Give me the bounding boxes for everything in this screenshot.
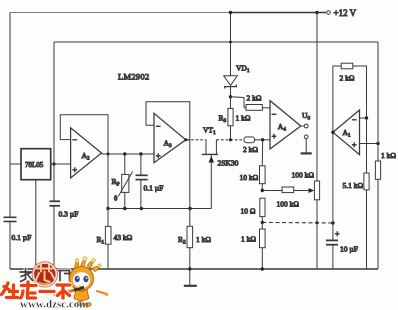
eyes <box>75 276 80 282</box>
svg-text:100 kΩ: 100 kΩ <box>277 200 300 209</box>
svg-text:+: + <box>335 230 340 239</box>
wire A3 output down to R2 <box>186 140 190 227</box>
wire bottom bias line <box>108 208 212 210</box>
svg-text:2 kΩ: 2 kΩ <box>243 145 258 154</box>
terminal U0 return <box>304 135 308 139</box>
resistor 2k to A4 non-inverting input <box>244 137 255 143</box>
svg-text:A3: A3 <box>164 139 172 150</box>
diode VD1 zener <box>230 13 232 76</box>
wire +12V rail <box>10 12 231 14</box>
wire dashed link to A1 output line <box>262 221 333 224</box>
svg-text:0.1 µF: 0.1 µF <box>144 184 164 193</box>
wire A2 output <box>102 153 155 155</box>
svg-text:−: − <box>352 116 357 125</box>
svg-text:www.dzsc.com: www.dzsc.com <box>20 299 88 310</box>
svg-text:+: + <box>73 166 78 175</box>
resistor R1 43k <box>107 209 109 227</box>
svg-text:+: + <box>156 152 161 161</box>
terminal U0 output <box>301 125 304 127</box>
svg-text:−: − <box>73 136 78 145</box>
feet <box>77 302 83 306</box>
svg-text:0.3 µF: 0.3 µF <box>59 210 79 219</box>
svg-text:R1: R1 <box>97 235 105 246</box>
resistor R2 1k <box>187 226 193 247</box>
character 下 <box>57 285 70 298</box>
watermark 维库一下 <box>2 282 71 298</box>
op-amp A3 <box>154 113 186 162</box>
wire +5V rail (LM2902 supply) <box>54 41 378 43</box>
capacitor 0.1uF (input decoupling) <box>4 216 17 218</box>
svg-text:U0: U0 <box>302 111 310 122</box>
node junction at 78L05 output <box>52 162 55 165</box>
svg-text:1 kΩ: 1 kΩ <box>241 235 256 244</box>
svg-text:θ: θ <box>114 195 118 203</box>
op-amp A1 (points left) <box>333 110 360 155</box>
character 芯 strokes inside badge <box>36 265 54 283</box>
character 库 <box>21 282 37 298</box>
head helmet <box>70 267 94 291</box>
wire +5V feed down from 78L05 output <box>53 42 55 201</box>
wire 78L05 input <box>10 163 21 165</box>
wire A1 inverting input <box>360 117 367 119</box>
wire ground rail (bottom) <box>10 268 378 270</box>
resistor 2k to A4 inverting input <box>231 97 245 108</box>
svg-text:1 kΩ: 1 kΩ <box>381 151 396 160</box>
svg-text:100 kΩ: 100 kΩ <box>292 171 315 180</box>
svg-text:−: − <box>156 122 161 131</box>
svg-text:78L05: 78L05 <box>25 161 44 169</box>
svg-text:10 kΩ: 10 kΩ <box>240 173 259 182</box>
pen (held, pointing lower-left) <box>58 288 84 295</box>
character 维 <box>2 283 18 298</box>
wire 78L05 output to A2 <box>51 163 71 165</box>
node junction pot branch on +12V rail <box>315 11 318 14</box>
svg-text:5.1 kΩ: 5.1 kΩ <box>343 181 364 190</box>
character 找 <box>20 269 33 282</box>
svg-text:VT1: VT1 <box>203 126 216 137</box>
transistor VT1 2SK30 JFET <box>205 140 207 155</box>
svg-text:R3: R3 <box>219 114 227 125</box>
capacitor 10uF electrolytic <box>326 239 338 241</box>
wire A2 feedback loop <box>60 115 108 154</box>
wire A1 output down <box>332 132 334 240</box>
wire 78L05 ground pin <box>35 180 37 269</box>
svg-text:+12 V: +12 V <box>334 8 357 18</box>
wire A3 output dashed <box>187 139 207 141</box>
character 一 <box>40 290 54 293</box>
resistor 10k <box>261 140 263 166</box>
terminal +12V <box>327 11 331 15</box>
op-amp A2 <box>71 128 102 178</box>
capacitor 0.3uF <box>50 200 61 202</box>
svg-text:A2: A2 <box>82 151 90 162</box>
thermistor RP <box>124 154 126 174</box>
wire right edge <box>377 42 379 161</box>
character 片 <box>59 270 71 281</box>
ground symbol (main) <box>188 267 191 270</box>
body <box>74 290 89 301</box>
right arm <box>96 291 106 294</box>
svg-text:A1: A1 <box>343 128 351 139</box>
wire left edge lower <box>9 222 11 270</box>
svg-text:0.1 µF: 0.1 µF <box>12 233 32 242</box>
watermark mascot <box>54 257 109 307</box>
node junction VD1 branch on +12V rail <box>229 11 232 14</box>
resistor R3 1k <box>230 97 232 109</box>
svg-text:1 kΩ: 1 kΩ <box>196 235 211 244</box>
regulator 78L05 <box>21 149 51 180</box>
svg-text:VD1: VD1 <box>236 64 250 75</box>
wire A1 non-inverting input <box>360 143 379 145</box>
svg-text:2 kΩ: 2 kΩ <box>247 94 262 103</box>
svg-text:1 kΩ: 1 kΩ <box>236 114 251 123</box>
svg-text:−: − <box>272 110 277 119</box>
face <box>73 272 91 288</box>
node zener / R3 junction <box>229 95 232 98</box>
ground at output terminal <box>305 139 307 153</box>
svg-text:LM2902: LM2902 <box>118 72 150 82</box>
op-amp A4 <box>270 101 301 149</box>
svg-text:+: + <box>272 132 277 141</box>
resistor 5.1k <box>366 118 368 173</box>
svg-text:10 Ω: 10 Ω <box>241 207 256 216</box>
svg-text:+: + <box>352 141 357 150</box>
potentiometer 100k <box>316 13 318 182</box>
svg-text:RP: RP <box>112 177 120 188</box>
wire A2 output node down to R1 <box>107 154 109 209</box>
resistor 1k (right edge divider) <box>375 161 380 179</box>
wire A1 feedback loop with 2k <box>333 66 341 132</box>
svg-text:A4: A4 <box>278 122 286 133</box>
resistor 1k (divider bottom) <box>261 222 263 229</box>
crown ball tips <box>75 259 79 263</box>
svg-text:43 kΩ: 43 kΩ <box>114 233 133 242</box>
capacitor 0.1uF (A2 node) <box>140 154 142 175</box>
svg-text:10 µF: 10 µF <box>340 245 358 254</box>
svg-text:2 kΩ: 2 kΩ <box>340 74 355 83</box>
watermark logo 找芯片 <box>20 262 71 287</box>
resistor 10R <box>260 198 265 216</box>
crown spikes <box>75 260 100 272</box>
wire JFET to R3 node dashed <box>216 139 243 141</box>
svg-text:2SK30: 2SK30 <box>218 159 239 168</box>
wire A3 feedback loop <box>146 102 190 140</box>
red circle badge around 芯 <box>33 263 56 286</box>
wire left edge (+12V feed down) <box>9 13 11 218</box>
resistor 100k horizontal to pot wiper <box>262 190 282 192</box>
svg-text:R2: R2 <box>178 235 186 246</box>
